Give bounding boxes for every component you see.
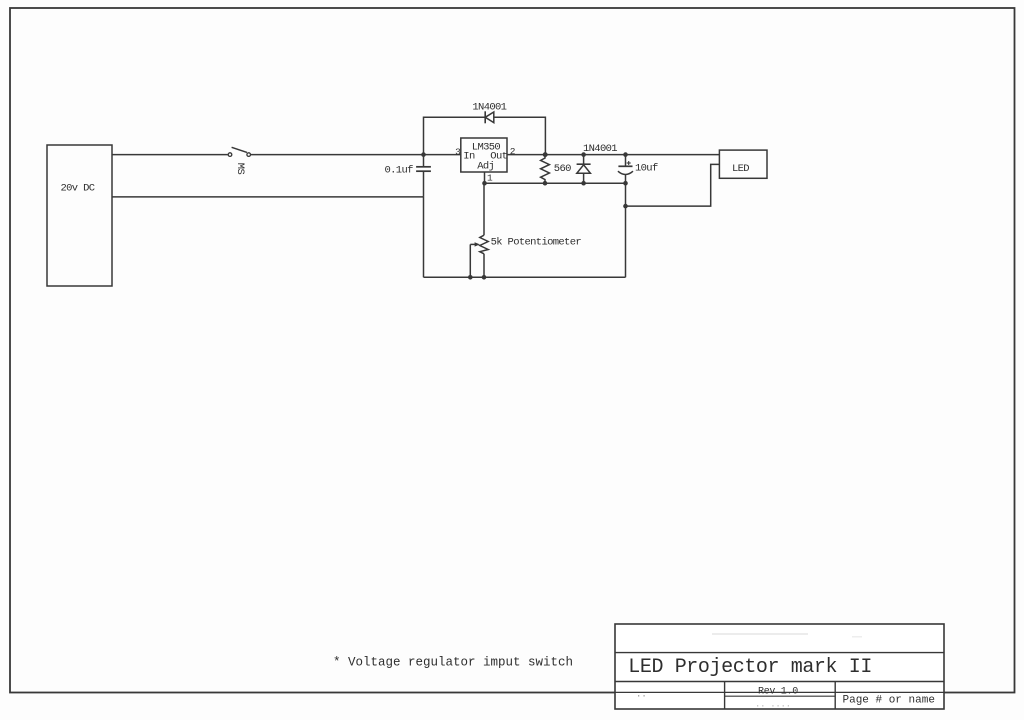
node resistor top: [543, 152, 548, 157]
wire source positive to switch: [112, 154, 228, 156]
capacitor C1 0.1uf: [385, 155, 431, 197]
LED box: [719, 150, 767, 178]
node cap bottom: [623, 181, 628, 186]
node resistor bottom: [543, 181, 548, 186]
node cap top: [623, 152, 628, 157]
svg-text:MS: MS: [234, 163, 246, 175]
node pot bottom: [482, 275, 487, 280]
diode D1 1N4001 bypass: [472, 102, 506, 124]
svg-text:.. ....: .. ....: [755, 700, 791, 710]
diode D2 1N4001 protection: [577, 143, 618, 183]
wire Adj pin: [484, 172, 486, 183]
wire switch to LM350 In pin: [251, 154, 461, 156]
svg-text:1N4001: 1N4001: [472, 102, 506, 114]
resistor R1 560: [541, 155, 572, 184]
wire LED return: [626, 164, 720, 206]
svg-text:LED: LED: [732, 163, 749, 175]
svg-text:* Voltage regulator imput swit: * Voltage regulator imput switch: [333, 656, 573, 670]
node wiper to rail: [468, 275, 473, 280]
node Adj junction: [482, 181, 487, 186]
node input junction: [421, 152, 426, 157]
wire LM350 Out to LED: [507, 154, 719, 156]
node diode top: [581, 152, 586, 157]
regulator U1 LM350: [455, 138, 516, 183]
wire bypass diode to output junction: [494, 117, 546, 154]
svg-text:Adj: Adj: [477, 161, 494, 173]
svg-text:1: 1: [487, 172, 493, 183]
svg-text:20v DC: 20v DC: [61, 183, 95, 195]
svg-text:0.1uf: 0.1uf: [385, 164, 414, 176]
svg-text:..: ..: [636, 690, 647, 700]
wire cap branch down: [625, 183, 627, 277]
capacitor C2 10uf polarized: [618, 155, 658, 184]
node LED return junction: [623, 204, 628, 209]
svg-text:In: In: [463, 151, 475, 163]
svg-text:Rev 1.0: Rev 1.0: [758, 686, 798, 697]
title block: [615, 624, 944, 710]
svg-text:Page # or name: Page # or name: [843, 695, 935, 707]
wire Adj rail: [485, 182, 626, 184]
wire input branch down to bottom rail: [423, 197, 425, 277]
svg-text:10uf: 10uf: [635, 163, 658, 175]
svg-text:1N4001: 1N4001: [583, 143, 617, 155]
source box 20v DC: [47, 145, 112, 286]
svg-text:560: 560: [554, 163, 571, 175]
wire riser to bypass diode run: [424, 117, 486, 154]
svg-text:3: 3: [455, 146, 461, 157]
node output junction: [543, 152, 548, 157]
switch MS: [228, 147, 250, 174]
wire source return: [112, 196, 424, 198]
node diode bottom: [581, 181, 586, 186]
wire bottom rail: [424, 276, 626, 278]
note voltage regulator input switch: [333, 656, 573, 670]
potentiometer R2 5k: [470, 183, 581, 277]
svg-text:5k Potentiometer: 5k Potentiometer: [491, 236, 582, 248]
svg-text:LED Projector mark II: LED Projector mark II: [628, 656, 872, 679]
